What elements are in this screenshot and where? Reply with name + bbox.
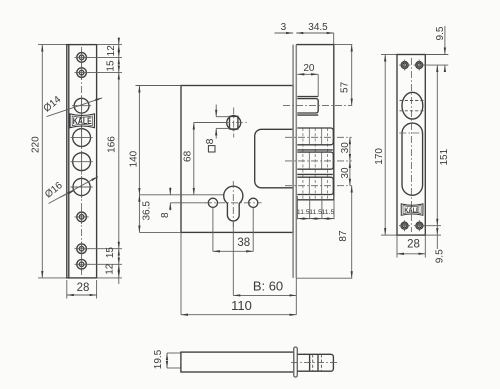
- svg-text:38: 38: [237, 237, 250, 249]
- svg-text:11.5: 11.5: [322, 209, 335, 216]
- block top extension to 57 dim: [334, 44, 353, 46]
- svg-text:19.5: 19.5: [153, 349, 164, 369]
- bolt centerline: [291, 361, 339, 363]
- latch bolt: [297, 97, 318, 116]
- dim 68: [183, 123, 226, 195]
- screw hole top1: [75, 50, 89, 64]
- dim line 140 / 36.5: [138, 86, 140, 233]
- svg-text:KALE: KALE: [73, 116, 92, 126]
- pin centerline mark: [399, 132, 425, 134]
- hole mid1: [71, 127, 93, 149]
- dim 30/30: [340, 137, 351, 185]
- hole D16: [71, 176, 93, 198]
- dim 11.5 x3: [297, 196, 335, 219]
- pin1 centerline: [285, 136, 352, 138]
- dim 3 / 34.5 top: [275, 22, 334, 45]
- follower (square spindle hub): [210, 108, 249, 138]
- screw hole bottom1: [75, 242, 89, 256]
- svg-text:9.5: 9.5: [435, 249, 446, 263]
- dimension 220 line: [38, 45, 67, 278]
- screw hole top2: [75, 66, 89, 80]
- pin3 centerline: [285, 185, 352, 187]
- leader D14: [42, 94, 102, 117]
- svg-text:15: 15: [105, 247, 116, 259]
- shelf line 1: [297, 149, 333, 151]
- hole D14: [72, 96, 91, 115]
- svg-text:28: 28: [77, 282, 90, 294]
- latch hidden lines: [400, 100, 425, 102]
- svg-text:87: 87: [338, 230, 349, 242]
- svg-text:12: 12: [104, 263, 115, 275]
- screw hole bottom2: [75, 257, 89, 271]
- KALE logo left: [70, 114, 95, 128]
- dim 8 (cyl to hole): [160, 187, 206, 218]
- oval cutout 1: [402, 92, 423, 119]
- svg-text:68: 68: [183, 150, 194, 162]
- oval cutout 2: [402, 123, 423, 195]
- svg-text:20: 20: [303, 63, 315, 74]
- plate centerline: [410, 58, 412, 232]
- svg-text:9.5: 9.5: [435, 26, 446, 40]
- dim 151: [437, 65, 450, 226]
- svg-text:140: 140: [129, 150, 140, 167]
- svg-text:28: 28: [407, 239, 420, 251]
- extension line left case bottom down: [180, 232, 182, 314]
- svg-text:110: 110: [231, 298, 252, 313]
- screw hole br: [414, 220, 425, 231]
- faceplate bend line: [68, 45, 70, 278]
- svg-text:3: 3: [281, 22, 287, 33]
- pin head verticals: [310, 354, 322, 371]
- faceplate flange section: [294, 347, 298, 377]
- plate outline: [397, 55, 425, 236]
- bolt pin 3: [297, 177, 333, 194]
- case outline: [181, 86, 293, 233]
- dim 38: [213, 208, 253, 252]
- dim B:60: [233, 279, 296, 296]
- pin hidden/divider verticals: [303, 128, 328, 200]
- dim 28 right: [397, 235, 425, 257]
- KALE logo right: [401, 204, 423, 215]
- pin2 centerline: [285, 160, 352, 162]
- faceplate outline: [67, 45, 97, 278]
- leader D16: [43, 177, 98, 204]
- svg-text:34.5: 34.5: [308, 22, 328, 33]
- svg-text:15: 15: [106, 60, 117, 72]
- extension faceplate down: [295, 278, 297, 315]
- bolt body: [181, 352, 294, 372]
- bolt pin 2: [297, 152, 333, 169]
- dim 9.5 bottom: [421, 226, 446, 264]
- svg-text:11.5: 11.5: [297, 209, 310, 216]
- screw hole tr: [414, 60, 425, 71]
- svg-text:57: 57: [340, 81, 351, 93]
- svg-text:151: 151: [439, 148, 450, 165]
- rear block outline: [296, 45, 334, 200]
- dim 140/36.5 extensions: [136, 86, 225, 233]
- svg-text:8: 8: [204, 138, 216, 144]
- cylinder keyhole: [224, 181, 243, 227]
- svg-text:166: 166: [106, 136, 117, 153]
- dim 9.5 top: [421, 26, 448, 72]
- svg-text:220: 220: [30, 136, 41, 153]
- bolt pin 1: [297, 128, 333, 145]
- svg-text:KALE: KALE: [404, 205, 420, 214]
- right dim line 12/15/166/15/12: [118, 39, 120, 285]
- svg-text:30: 30: [340, 142, 351, 154]
- latch centerline: [283, 104, 352, 106]
- interior cutout rounded rect: [255, 129, 293, 188]
- dim 28 bottom: [67, 280, 97, 299]
- shelf line 2: [297, 173, 333, 175]
- svg-text:170: 170: [374, 148, 385, 165]
- centerline: [81, 47, 83, 276]
- svg-text:11.5: 11.5: [309, 209, 322, 216]
- hole mid2: [71, 151, 93, 173]
- extension line B60 from cylinder: [232, 221, 234, 295]
- cylinder fixing hole left: [208, 198, 217, 207]
- dim 110: [181, 298, 296, 315]
- cylinder fixing hole right: [249, 198, 258, 207]
- dim 170: [374, 55, 397, 236]
- svg-text:30: 30: [340, 167, 351, 179]
- svg-text:12: 12: [106, 45, 117, 57]
- horizontal centerline through fixing holes: [205, 202, 262, 204]
- dim 20: [297, 63, 318, 96]
- right dim extension lines: [88, 45, 122, 278]
- dim 19.5: [153, 349, 181, 369]
- screw hole mid-low: [75, 210, 89, 224]
- dim square8: [204, 105, 230, 153]
- svg-text:8: 8: [160, 212, 171, 218]
- screw hole bl: [399, 220, 410, 231]
- screw hole tl: [399, 60, 410, 71]
- svg-text:B: 60: B: 60: [253, 279, 283, 294]
- dim 87: [296, 186, 352, 279]
- svg-text:36.5: 36.5: [141, 201, 152, 221]
- faceplate edge-on (double gray line): [293, 45, 296, 278]
- dim 57: [340, 45, 352, 106]
- bolt pin head: [297, 354, 333, 371]
